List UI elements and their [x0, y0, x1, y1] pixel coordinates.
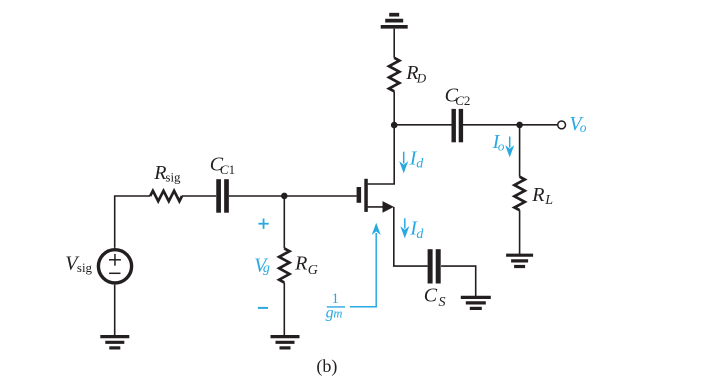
svg-text:sig: sig: [77, 260, 93, 275]
svg-text:o: o: [580, 120, 587, 135]
svg-text:g: g: [263, 261, 270, 276]
svg-text:R: R: [294, 253, 307, 275]
svg-text:d: d: [416, 227, 424, 242]
svg-text:D: D: [416, 71, 427, 86]
svg-text:o: o: [498, 139, 505, 154]
svg-text:S: S: [439, 295, 446, 310]
svg-text:C2: C2: [455, 93, 470, 108]
svg-text:sig: sig: [165, 170, 181, 185]
svg-text:C: C: [424, 284, 438, 306]
svg-text:G: G: [308, 263, 318, 278]
svg-text:d: d: [416, 157, 424, 172]
svg-text:C1: C1: [220, 162, 235, 177]
svg-text:m: m: [333, 307, 342, 321]
svg-text:g: g: [326, 304, 334, 321]
svg-text:R: R: [531, 184, 544, 206]
svg-text:L: L: [544, 193, 553, 208]
svg-text:(b): (b): [316, 356, 337, 377]
